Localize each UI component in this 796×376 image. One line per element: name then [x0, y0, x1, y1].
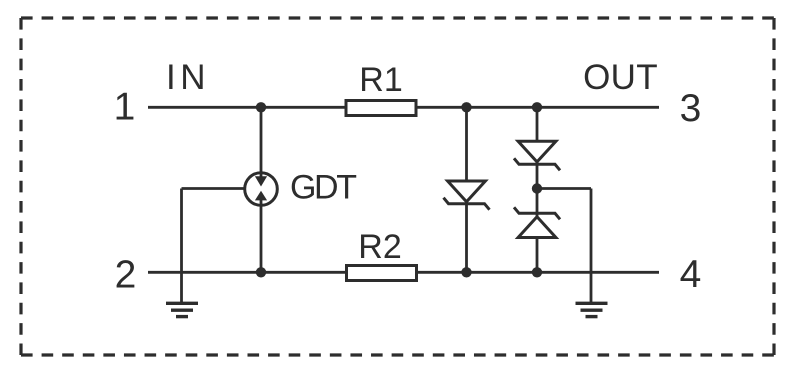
svg-text:GDT: GDT	[290, 169, 356, 207]
svg-text:4: 4	[680, 253, 702, 296]
junction dot: top rail / GDT	[256, 102, 266, 112]
wire: right branch center node to ground drop	[537, 189, 591, 304]
wire: GDT left stub to ground drop	[182, 189, 247, 304]
value label R2	[358, 228, 401, 266]
junction dot: top rail / right branch	[532, 102, 542, 112]
junction dot: bottom rail / middle branch	[461, 267, 471, 277]
svg-text:OUT: OUT	[583, 58, 658, 97]
ground (left)	[166, 303, 198, 316]
resistor R2	[347, 266, 417, 281]
pin 3 label	[680, 87, 702, 130]
svg-text:3: 3	[680, 87, 702, 130]
TVS diode D1 (middle branch, zener, cathode up-stream)	[444, 181, 490, 210]
junction dot: right branch center node	[532, 183, 542, 193]
GDT (gas discharge tube)	[245, 107, 278, 272]
pin 1 label	[114, 86, 136, 129]
net label IN	[166, 58, 210, 97]
wire: right TVS branch vertical	[536, 107, 539, 272]
pin 2 label	[115, 254, 137, 297]
svg-text:2: 2	[115, 254, 137, 297]
value label R1	[359, 61, 402, 99]
junction dot: top rail / middle branch	[461, 102, 471, 112]
junction dot: bottom rail / GDT	[256, 267, 266, 277]
resistor R1	[346, 101, 416, 116]
TVS diode D2 (right branch upper)	[514, 141, 560, 170]
pin 4 label	[680, 253, 702, 296]
TVS diode D3 (right branch lower, flipped)	[514, 207, 560, 237]
svg-text:IN: IN	[166, 58, 210, 97]
svg-text:R1: R1	[359, 61, 402, 99]
value label GDT	[290, 169, 356, 207]
ground (right)	[576, 303, 608, 316]
svg-text:R2: R2	[358, 228, 401, 266]
junction dot: bottom rail / right branch	[532, 267, 542, 277]
wire: bottom rail pin2 to pin4	[148, 271, 659, 274]
wire: top rail pin1 to pin3	[148, 106, 659, 109]
wire: middle TVS branch vertical	[465, 107, 468, 272]
svg-text:1: 1	[114, 86, 136, 129]
net label OUT	[583, 58, 658, 97]
